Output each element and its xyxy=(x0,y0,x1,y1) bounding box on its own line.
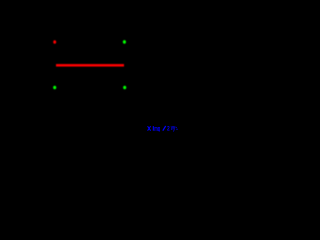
scale label word stem "I" xyxy=(153,126,154,131)
scale label trailing mark upper xyxy=(175,127,178,128)
scale label trailing mark lower xyxy=(177,129,178,130)
scale label group xyxy=(148,125,178,133)
antenna wire (red line) xyxy=(56,64,124,67)
scale label "X" (two strokes) xyxy=(148,126,151,131)
charge dot green (top right, negative) xyxy=(123,40,126,44)
charge dot green (bottom left) xyxy=(53,86,56,90)
charge dot green (bottom right) xyxy=(123,86,126,90)
charge dot red (top left, positive) xyxy=(53,40,56,44)
scale label "/" xyxy=(163,126,166,131)
